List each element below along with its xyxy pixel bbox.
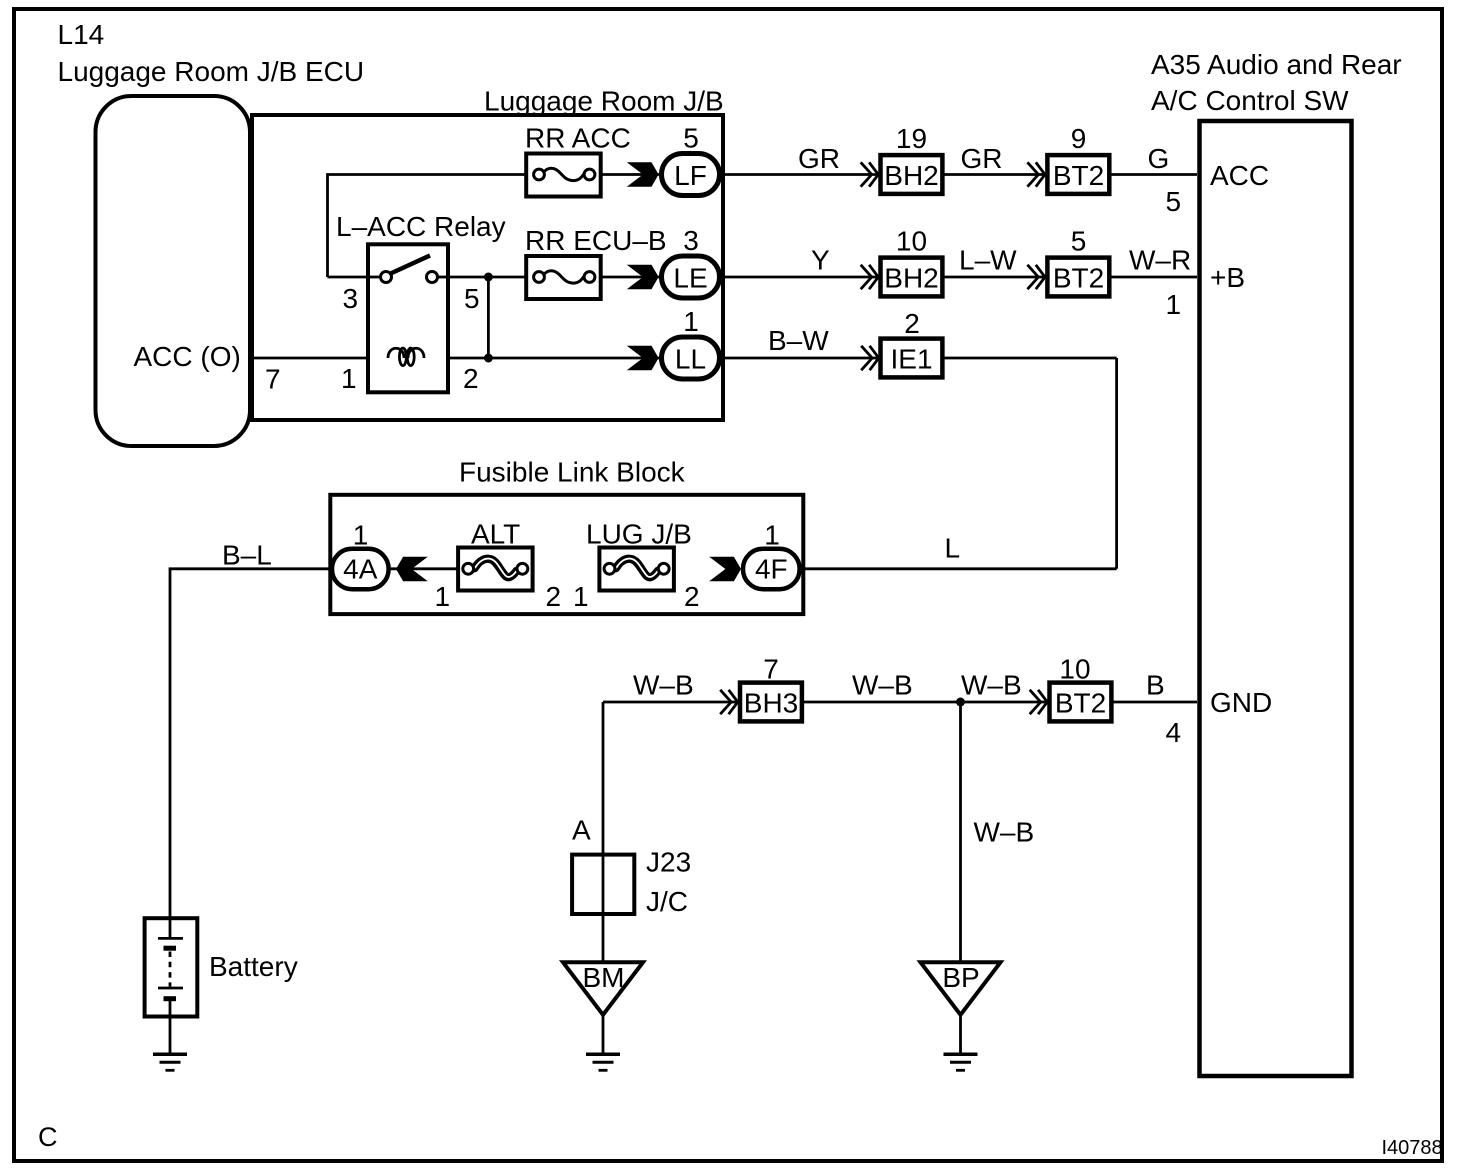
svg-text:19: 19 (896, 123, 927, 154)
svg-text:Y: Y (811, 245, 830, 276)
svg-text:J/C: J/C (646, 886, 688, 917)
ground BP (944, 1052, 978, 1056)
wire battery to ground (169, 999, 172, 1053)
svg-text:3: 3 (343, 283, 359, 314)
svg-text:1: 1 (435, 581, 451, 612)
svg-text:J23: J23 (646, 847, 691, 878)
svg-text:W–B: W–B (961, 670, 1022, 701)
connector BH2 row1 (881, 155, 943, 194)
svg-text:RR ACC: RR ACC (525, 123, 631, 154)
chevron into BH2 row1 (861, 162, 879, 186)
relay switch arm (390, 256, 431, 275)
svg-text:2: 2 (904, 308, 920, 339)
svg-text:10: 10 (1059, 654, 1090, 685)
svg-text:BH2: BH2 (884, 160, 938, 191)
svg-text:RR ECU–B: RR ECU–B (525, 225, 667, 256)
relay switch wire stubs (368, 276, 381, 279)
junction box J23 (572, 855, 634, 914)
svg-text:ACC (O): ACC (O) (134, 341, 241, 372)
svg-text:B–W: B–W (768, 325, 829, 356)
svg-text:L: L (945, 533, 961, 564)
svg-text:A/C Control SW: A/C Control SW (1151, 85, 1349, 116)
svg-text:LE: LE (673, 263, 707, 294)
svg-text:4: 4 (1166, 717, 1182, 748)
fusible link LUG circle right (658, 563, 669, 574)
connector arrow to 4F (709, 557, 741, 581)
svg-text:5: 5 (683, 123, 699, 154)
chevron into BH3 (720, 690, 738, 714)
chevron into IE1 (861, 346, 879, 370)
ground battery (153, 1052, 187, 1056)
svg-text:1: 1 (341, 363, 357, 394)
svg-text:L14: L14 (58, 19, 105, 50)
wire junction down to BP (959, 702, 962, 961)
connector BH3 (740, 683, 802, 722)
fuse RR ACC box (526, 154, 601, 197)
svg-text:ACC: ACC (1210, 160, 1269, 191)
svg-text:LF: LF (674, 160, 707, 191)
connector BT2 row1 (1047, 155, 1109, 194)
battery box (145, 918, 198, 1016)
connector oval 4A (332, 549, 389, 589)
svg-text:4A: 4A (343, 554, 378, 585)
wire 4A link row (522, 567, 609, 570)
wire bottom W-B row (603, 701, 1197, 704)
svg-text:2: 2 (463, 363, 479, 394)
svg-text:Fusible Link Block: Fusible Link Block (459, 457, 686, 488)
svg-text:2: 2 (546, 581, 562, 612)
svg-text:3: 3 (683, 225, 699, 256)
svg-text:9: 9 (1071, 123, 1087, 154)
svg-text:BM: BM (583, 962, 625, 993)
svg-text:2: 2 (684, 581, 700, 612)
svg-text:G: G (1148, 143, 1170, 174)
wire 4F L wire (664, 567, 1117, 570)
svg-text:W–B: W–B (633, 670, 694, 701)
svg-text:BT2: BT2 (1053, 263, 1104, 294)
svg-text:10: 10 (896, 226, 927, 257)
fusible link ALT box (458, 548, 532, 591)
svg-text:A: A (572, 815, 591, 846)
svg-text:I40788: I40788 (1382, 1137, 1443, 1159)
wire row1 corner to RR ACC fuse (328, 175, 540, 278)
connector oval 4F (743, 549, 800, 589)
wire row1 fuse to A35 ACC (590, 173, 1198, 176)
chevron into BT2 bottom (1030, 690, 1048, 714)
Luggage Room J/B block (252, 115, 723, 420)
connector arrow to LL (627, 346, 659, 370)
svg-text:W–R: W–R (1129, 245, 1191, 276)
svg-text:BH3: BH3 (744, 688, 798, 719)
svg-text:B: B (1146, 670, 1165, 701)
svg-text:4F: 4F (755, 554, 788, 585)
fusible link LUG circle left (604, 563, 615, 574)
fusible link ALT element (475, 559, 517, 577)
wire BP apex to ground (959, 1015, 962, 1053)
svg-text:1: 1 (353, 520, 369, 551)
fusible link ALT circle right (517, 563, 528, 574)
connector arrow from 4A (left) (396, 557, 428, 581)
connector arrow to LF (627, 162, 659, 186)
svg-text:L–ACC Relay: L–ACC Relay (336, 211, 506, 242)
svg-text:7: 7 (265, 364, 281, 395)
svg-text:5: 5 (464, 283, 480, 314)
connector oval LE (662, 256, 720, 298)
fuse RR ACC circle left (534, 169, 545, 180)
svg-text:1: 1 (1166, 289, 1182, 320)
svg-text:W–B: W–B (974, 817, 1035, 848)
A35 component box (1200, 121, 1352, 1076)
battery plate short thick bottom (164, 996, 177, 1001)
fuse RR ECU-B circle right (584, 272, 595, 283)
relay switch contact right (427, 272, 438, 283)
svg-text:BP: BP (942, 962, 979, 993)
chevron into BH2 row2 (861, 265, 879, 289)
junction dot relay pin5 (484, 273, 493, 282)
svg-text:BH2: BH2 (884, 263, 938, 294)
ground triangle BM (563, 962, 643, 1015)
svg-text:Luggage Room J/B: Luggage Room J/B (484, 86, 724, 117)
svg-text:BT2: BT2 (1055, 688, 1106, 719)
wire vertical junction pin5 to pin2 (487, 277, 490, 358)
svg-text:Luggage Room J/B ECU: Luggage Room J/B ECU (58, 56, 365, 87)
ground triangle BP (921, 962, 1001, 1015)
svg-text:B–L: B–L (222, 540, 272, 571)
connector oval LL (662, 337, 720, 379)
connector IE1 (881, 339, 943, 378)
wire row2 corner to relay pin3 (328, 276, 382, 279)
wire row2 fuse to A35 +B (590, 276, 1198, 279)
svg-text:IE1: IE1 (890, 344, 932, 375)
svg-text:5: 5 (1071, 226, 1087, 257)
ECU connector L14 rounded box (96, 96, 251, 446)
wire row3 coil to IE1 and beyond (424, 357, 1117, 360)
svg-text:GR: GR (798, 143, 840, 174)
wire BM apex to ground (602, 1015, 605, 1053)
svg-text:A35 Audio and Rear: A35 Audio and Rear (1151, 49, 1402, 80)
fuse RR ACC circle right (584, 169, 595, 180)
fusible link LUG element (616, 559, 658, 577)
svg-text:BT2: BT2 (1053, 160, 1104, 191)
wire W-B down through J23 to BM (602, 702, 605, 961)
connector arrow to LE (627, 265, 659, 289)
svg-text:ALT: ALT (471, 519, 520, 550)
chevron into BT2 row2 (1027, 265, 1045, 289)
svg-text:LL: LL (675, 344, 706, 375)
fuse RR ECU-B circle left (534, 272, 545, 283)
svg-text:5: 5 (1166, 186, 1182, 217)
fusible link ALT circle left (463, 563, 474, 574)
fusible link LUG J/B box (599, 548, 674, 591)
wire battery B-L to 4A (170, 569, 468, 939)
connector BH2 row2 (881, 258, 943, 297)
svg-text:W–B: W–B (852, 670, 913, 701)
wire vertical IE1 line down to L wire (1115, 358, 1118, 569)
relay coil (388, 348, 404, 358)
svg-text:L–W: L–W (959, 245, 1017, 276)
connector oval LF (662, 154, 720, 196)
battery plate long top (158, 937, 183, 940)
svg-text:GND: GND (1210, 687, 1272, 718)
svg-text:Battery: Battery (209, 951, 298, 982)
svg-text:LUG J/B: LUG J/B (586, 519, 692, 550)
junction dot W-B (956, 698, 965, 707)
chevron into BT2 row1 (1027, 162, 1045, 186)
connector BT2 row2 (1047, 258, 1109, 297)
relay switch contact left (381, 272, 392, 283)
svg-text:GR: GR (961, 143, 1003, 174)
svg-text:1: 1 (764, 520, 780, 551)
svg-text:+B: +B (1210, 262, 1245, 293)
wire into battery top (169, 917, 172, 938)
wire inside block to 4A (330, 567, 468, 570)
battery dashed center line (169, 952, 172, 987)
relay L-ACC box (368, 244, 448, 392)
ground BM (586, 1052, 620, 1056)
junction dot relay pin2 (484, 354, 493, 363)
wire row3 ECU ACC(O) to relay coil (250, 357, 388, 360)
fuse RR ACC element (544, 168, 585, 180)
svg-text:7: 7 (763, 654, 779, 685)
Fusible Link Block box (330, 495, 803, 614)
connector BT2 bottom (1050, 683, 1112, 722)
fuse RR ECU-B box (526, 256, 601, 299)
fuse RR ECU-B element (544, 271, 585, 283)
svg-text:C: C (38, 1122, 58, 1152)
battery plate long bottom (158, 987, 183, 990)
svg-text:1: 1 (573, 581, 589, 612)
wire row2 relay pin5 to RR ECU-B fuse (438, 276, 540, 279)
battery plate short thick top (164, 946, 177, 951)
svg-text:1: 1 (683, 306, 699, 337)
